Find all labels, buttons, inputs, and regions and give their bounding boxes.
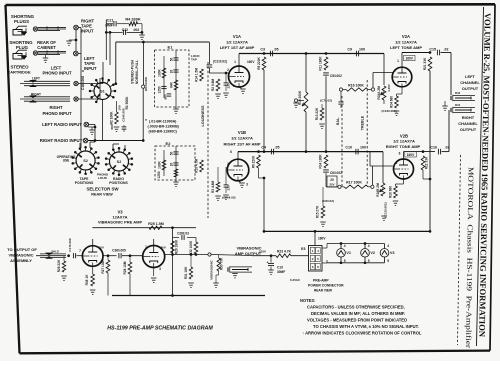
svg-text:R15 27K: R15 27K [316, 205, 320, 218]
svg-text:R29 180K: R29 180K [175, 239, 179, 254]
svg-text:50: 50 [170, 58, 174, 62]
svg-text:100: 100 [360, 145, 366, 149]
svg-text:(C21‖.02): (C21‖.02) [213, 60, 227, 64]
svg-text:DECIMAL VALUES IN MF; ALL OTHE: DECIMAL VALUES IN MF; ALL OTHERS IN MMF. [311, 311, 405, 316]
svg-text:180V: 180V [318, 237, 326, 241]
svg-text:E3: E3 [301, 247, 305, 251]
svg-text:V1: V1 [346, 251, 351, 255]
svg-text:STEREO-PUSH: STEREO-PUSH [131, 59, 135, 83]
svg-text:LOUD: LOUD [98, 176, 108, 180]
svg-text:6: 6 [399, 152, 401, 156]
svg-text:R20 680: R20 680 [389, 186, 393, 198]
svg-text:1250: 1250 [158, 86, 162, 93]
svg-text:VIBRASONIC PRE AMP: VIBRASONIC PRE AMP [98, 220, 143, 225]
svg-text:2: 2 [396, 161, 398, 165]
svg-text:V2B: V2B [400, 133, 408, 138]
svg-text:4: 4 [344, 244, 346, 248]
svg-text:C3: C3 [260, 48, 265, 52]
svg-text:CHANNEL: CHANNEL [458, 121, 478, 126]
svg-text:V1B: V1B [238, 130, 246, 135]
svg-text:R28 10M: R28 10M [123, 261, 127, 274]
svg-text:160V: 160V [405, 57, 413, 61]
svg-text:3: 3 [159, 267, 161, 271]
svg-text:R14 180K: R14 180K [319, 154, 323, 169]
svg-text:SELECTOR SW: SELECTOR SW [86, 187, 119, 192]
svg-text:1: 1 [234, 60, 236, 64]
svg-text:(C13‖.001): (C13‖.001) [382, 109, 397, 113]
svg-text:VIBRASONIC: VIBRASONIC [236, 246, 261, 251]
svg-text:R36 1K: R36 1K [85, 274, 89, 286]
svg-text:C10: C10 [345, 145, 352, 149]
svg-text:1: 1 [397, 59, 399, 63]
svg-text:ON CORD: ON CORD [144, 76, 148, 91]
svg-text:CABINET: CABINET [37, 45, 56, 50]
svg-text:HS-1199 PRE-AMP SCHEMATIC DIAG: HS-1199 PRE-AMP SCHEMATIC DIAGRAM [107, 326, 213, 332]
svg-text:R14 1.5M: R14 1.5M [195, 68, 199, 82]
svg-text:CAPACITORS - UNLESS OTHERWISE: CAPACITORS - UNLESS OTHERWISE SPECIFIED, [307, 305, 405, 310]
svg-text:TAP: TAP [191, 58, 197, 62]
svg-text:C36‖.005: C36‖.005 [112, 249, 126, 253]
svg-text:1250: 1250 [157, 171, 161, 178]
svg-text:R2 100K: R2 100K [110, 111, 114, 125]
svg-text:RIGHT 1ST AF AMP: RIGHT 1ST AF AMP [223, 141, 260, 146]
svg-text:C6‖.002: C6‖.002 [330, 171, 342, 175]
svg-text:.002: .002 [133, 28, 140, 32]
svg-text:C16: C16 [430, 145, 437, 149]
svg-text:20: 20 [330, 178, 334, 182]
svg-text:OUTPUT: OUTPUT [462, 86, 479, 91]
svg-text:*: * [145, 118, 147, 123]
svg-text:C15: C15 [429, 47, 436, 51]
svg-text:R1 500K: R1 500K [125, 96, 129, 110]
svg-text:C24‖.005: C24‖.005 [122, 108, 126, 122]
svg-text:7: 7 [79, 249, 81, 253]
svg-text:25V: 25V [330, 183, 335, 187]
svg-text:680: 680 [110, 124, 114, 129]
svg-text:POWER CONNECTOR: POWER CONNECTOR [308, 284, 344, 288]
svg-text:TO OUTPUT OF: TO OUTPUT OF [7, 247, 37, 252]
svg-text:RIGHT TONE AMP: RIGHT TONE AMP [386, 144, 421, 149]
svg-text:R3 4.8M: R3 4.8M [211, 181, 215, 193]
svg-text:R13 22K: R13 22K [315, 107, 319, 120]
svg-text:R17 100K: R17 100K [346, 181, 362, 185]
svg-text:1.35V: 1.35V [387, 84, 391, 92]
svg-text:PLUG: PLUG [16, 45, 29, 50]
svg-text:R18A 2M: R18A 2M [377, 86, 381, 100]
svg-text:R32 100K: R32 100K [189, 240, 193, 255]
svg-text:50: 50 [170, 152, 174, 156]
svg-text:1/2 12AX7A: 1/2 12AX7A [231, 136, 253, 141]
svg-text:TREBLE: TREBLE [361, 115, 365, 130]
svg-text:C21: C21 [107, 19, 114, 23]
svg-text:R6 220K: R6 220K [252, 155, 256, 168]
svg-text:(680-BR-11990C): (680-BR-11990C) [149, 130, 178, 134]
svg-text:RIGHT RADIO INPUT: RIGHT RADIO INPUT [40, 138, 83, 143]
svg-text:100K: 100K [158, 68, 162, 76]
svg-text:R23 4.7K: R23 4.7K [277, 250, 292, 254]
svg-text:R24 680: R24 680 [390, 96, 394, 108]
svg-text:1/2 12AX7A: 1/2 12AX7A [226, 40, 248, 45]
svg-text:.05: .05 [275, 145, 280, 149]
svg-text:C22: C22 [122, 28, 128, 32]
svg-text:PHONO INPUT: PHONO INPUT [42, 71, 72, 76]
svg-text:C9: C9 [347, 48, 352, 52]
svg-text:PHONO INPUT: PHONO INPUT [42, 111, 72, 116]
svg-text:5: 5 [368, 259, 370, 263]
svg-text:6: 6 [230, 150, 232, 154]
svg-text:C17‖.009: C17‖.009 [68, 238, 72, 252]
svg-text:R26 22K: R26 22K [57, 259, 61, 272]
svg-text:64K: 64K [170, 81, 174, 88]
svg-text:TO CHASSIS WITH A VTVM, ± 10%: TO CHASSIS WITH A VTVM, ± 10% NO SIGNAL … [313, 324, 419, 329]
svg-text:R18B 2M: R18B 2M [376, 183, 380, 197]
svg-text:V1A: V1A [233, 34, 241, 39]
svg-text:CHANNEL: CHANNEL [460, 80, 480, 85]
svg-text:2: 2 [227, 68, 229, 72]
svg-text:2: 2 [394, 69, 396, 73]
svg-text:R31 18K: R31 18K [184, 266, 188, 279]
svg-text:PLUGS: PLUGS [14, 19, 29, 24]
svg-text:220: 220 [227, 83, 231, 88]
svg-text:7: 7 [233, 84, 235, 88]
svg-text:C18‖.008: C18‖.008 [81, 76, 85, 90]
svg-text:(C8‖.02): (C8‖.02) [322, 199, 334, 203]
svg-text:30MF: 30MF [277, 270, 285, 274]
svg-text:VIBRASONIC: VIBRASONIC [210, 260, 214, 280]
svg-text:R5 220K: R5 220K [257, 57, 261, 70]
svg-text:POSITIONS: POSITIONS [75, 181, 94, 185]
svg-text:↑ ARROW INDICATES CLOCKWISE RO: ↑ ARROW INDICATES CLOCKWISE ROTATION OF … [302, 331, 422, 336]
svg-text:4: 4 [368, 244, 370, 248]
svg-text:E2: E2 [166, 141, 172, 146]
svg-text:C5‖.002: C5‖.002 [330, 74, 342, 78]
svg-text:1/2 12AX7A: 1/2 12AX7A [395, 40, 417, 45]
svg-text:20: 20 [170, 163, 174, 167]
svg-text:R27 100K: R27 100K [101, 259, 105, 274]
svg-text:S1: S1 [100, 90, 104, 94]
svg-text:(.0033-BR-11990B): (.0033-BR-11990B) [148, 125, 180, 129]
svg-text:4: 4 [387, 244, 389, 248]
svg-text:2: 2 [227, 162, 229, 166]
svg-text:E1: E1 [168, 45, 174, 50]
svg-text:VOLTAGES - MEASURED FROM POINT: VOLTAGES - MEASURED FROM POINT INDICATED [307, 318, 407, 323]
svg-text:.05: .05 [274, 48, 279, 52]
svg-text:100: 100 [359, 48, 365, 52]
svg-text:(C7‖.02): (C7‖.02) [320, 99, 332, 103]
svg-text:USE: USE [63, 159, 70, 163]
svg-text:220: 220 [227, 185, 231, 190]
svg-text:+: + [267, 261, 269, 265]
svg-text:LEFT RADIO INPUT: LEFT RADIO INPUT [42, 122, 82, 127]
svg-text:LOUDNESS: LOUDNESS [201, 105, 205, 127]
svg-text:880: 880 [164, 94, 168, 99]
svg-text:R4 330K: R4 330K [125, 17, 141, 22]
svg-text:REAR VIEW: REAR VIEW [91, 193, 113, 197]
svg-text:BAL.: BAL. [336, 117, 340, 125]
svg-text:3: 3 [246, 183, 248, 187]
svg-text:S2: S2 [117, 160, 122, 164]
svg-text:V3: V3 [390, 251, 395, 255]
svg-text:RIGHT: RIGHT [49, 105, 62, 110]
svg-text:R44: R44 [455, 103, 461, 107]
svg-text:LEFT: LEFT [465, 74, 476, 79]
svg-text:6.3VAC: 6.3VAC [290, 278, 301, 282]
svg-text:R16 100K: R16 100K [348, 83, 364, 87]
svg-text:LEFT TONE AMP: LEFT TONE AMP [390, 45, 422, 50]
svg-text:V2: V2 [370, 251, 375, 255]
svg-text:C4: C4 [261, 145, 266, 149]
svg-text:OUTPUT: OUTPUT [460, 127, 477, 132]
svg-text:1: 1 [145, 245, 147, 249]
svg-text:C28‖.03: C28‖.03 [177, 232, 189, 236]
svg-text:20: 20 [170, 70, 174, 74]
svg-text:50V: 50V [99, 246, 104, 250]
svg-text:R43: R43 [455, 91, 461, 95]
svg-text:R30 75K: R30 75K [220, 257, 224, 270]
svg-text:V2A: V2A [402, 34, 410, 39]
svg-text:R22 33K: R22 33K [425, 156, 429, 169]
svg-text:PRE-AMP: PRE-AMP [313, 279, 329, 283]
svg-text:.02: .02 [444, 47, 449, 51]
svg-text:.02: .02 [445, 145, 450, 149]
svg-text:R2 6.8M: R2 6.8M [211, 79, 215, 91]
svg-text:LEFT: LEFT [32, 77, 40, 81]
svg-text:(C20‖.02): (C20‖.02) [222, 196, 236, 200]
svg-text:POSITIONS: POSITIONS [109, 181, 128, 185]
svg-text:(.01-BR-11990A): (.01-BR-11990A) [149, 120, 177, 124]
svg-text:NOTES:: NOTES: [300, 298, 315, 303]
svg-text:REAR VIEW: REAR VIEW [314, 289, 332, 293]
svg-text:CARTRIDGE: CARTRIDGE [7, 70, 31, 75]
svg-text:S2: S2 [83, 159, 88, 163]
svg-text:*: * [82, 70, 84, 76]
svg-text:R21 33K: R21 33K [423, 57, 427, 70]
svg-text:R25 1.5M: R25 1.5M [148, 222, 164, 226]
svg-text:NORMAL-PULL: NORMAL-PULL [135, 60, 139, 84]
svg-text:INPUT: INPUT [84, 66, 97, 71]
svg-text:RIGHT: RIGHT [462, 115, 475, 120]
svg-text:R11 180K: R11 180K [319, 56, 323, 71]
svg-text:ASSEMBLY: ASSEMBLY [10, 258, 32, 263]
svg-text:100K: 100K [158, 160, 162, 168]
svg-text:1/2 12AX7A: 1/2 12AX7A [393, 139, 415, 144]
svg-text:(C13‖.002): (C13‖.002) [384, 202, 388, 217]
svg-text:LEFT 1ST AF AMP: LEFT 1ST AF AMP [220, 45, 255, 50]
svg-text:5: 5 [387, 259, 389, 263]
svg-text:36V: 36V [161, 246, 166, 250]
svg-text:5: 5 [344, 259, 346, 263]
svg-text:160V: 160V [407, 153, 415, 157]
svg-text:R19 4.7M: R19 4.7M [195, 159, 199, 173]
svg-text:160V: 160V [247, 60, 255, 64]
svg-text:VIBRASONIC: VIBRASONIC [8, 253, 33, 258]
svg-text:INPUT: INPUT [81, 29, 94, 34]
